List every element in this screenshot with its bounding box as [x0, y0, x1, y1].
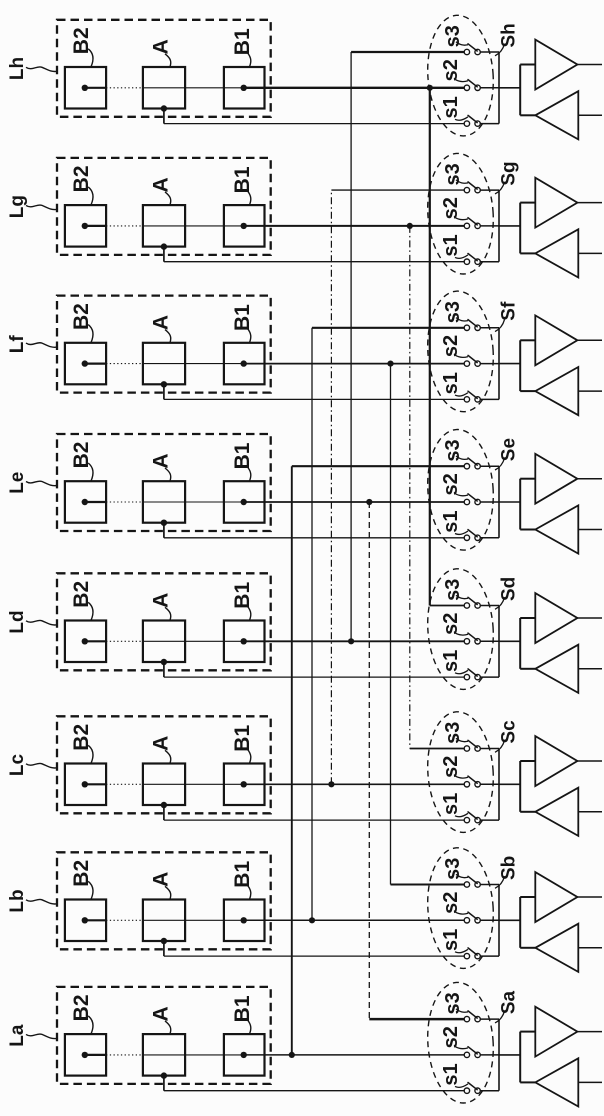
- leader s3 (Sa): [456, 1009, 468, 1012]
- svg-text:B1: B1: [231, 861, 254, 888]
- wire B2 tap to edge (Lb): [85, 919, 106, 921]
- svg-text:Sc: Sc: [499, 720, 520, 744]
- wire B2 tap to edge (Lh): [85, 87, 106, 89]
- switch s2 (Se) blade: [468, 494, 477, 501]
- svg-text:Se: Se: [499, 438, 520, 461]
- switch s3 (Sa) blade: [468, 1011, 477, 1018]
- wire s3 feed horizontal (La): [369, 1018, 467, 1021]
- svg-text:A: A: [150, 177, 173, 192]
- wire switch s1 out stub (Sh): [480, 123, 499, 125]
- svg-text:Lg: Lg: [7, 195, 28, 218]
- wire amp2 output (Sf): [578, 390, 602, 392]
- switch group ellipse Sa: [424, 980, 497, 1105]
- leader Le: [26, 481, 57, 486]
- switch s1 (Sa) blade: [468, 1083, 477, 1090]
- switch s1 (Sg) contact b: [475, 259, 480, 264]
- switch s2 (Sd) contact b: [475, 639, 480, 644]
- wire s3 feed horizontal (Lg): [331, 189, 467, 191]
- svg-text:B1: B1: [231, 28, 254, 55]
- switch s3 (Sc) blade: [468, 740, 477, 747]
- svg-text:s1: s1: [440, 793, 462, 815]
- wire s3 feed horizontal (Lf): [312, 327, 467, 329]
- block B1 (Lc): [224, 764, 265, 806]
- leader s1 (Sa): [455, 1084, 468, 1088]
- leader A (Lf): [165, 330, 171, 343]
- leader B1 (La): [248, 1020, 251, 1034]
- wire B2 tap to edge (La): [85, 1054, 106, 1056]
- switch s3 (Sf) contact b: [475, 325, 480, 330]
- leader A (Lh): [165, 54, 171, 67]
- wire A-B1 (Lb): [143, 919, 244, 921]
- leader s1 (Sf): [455, 393, 468, 397]
- wire B1 to switch s2 (Le): [244, 501, 467, 503]
- wire switch common bus (Sa): [498, 1019, 500, 1091]
- wire A tap drop (Le): [163, 523, 165, 538]
- wire switch s3 out stub (Sa): [480, 1018, 499, 1020]
- svg-text:s2: s2: [440, 473, 462, 495]
- block B2 (Lb): [65, 900, 106, 942]
- switch s1 (Sc) contact a: [464, 817, 469, 822]
- switch s3 (Sd) blade: [468, 597, 477, 604]
- wire to amp 2 (Sb): [520, 947, 535, 949]
- dashed block boundary Lc: [57, 716, 271, 813]
- amp triangle 1 (Sg): [535, 178, 577, 228]
- svg-text:s1: s1: [440, 510, 462, 532]
- switch s2 (Sa) blade: [468, 1047, 477, 1054]
- wire switch s1 out stub (Sg): [480, 261, 499, 263]
- junction node on B1 line (Lb): [309, 917, 315, 923]
- block A (Lb): [143, 900, 185, 942]
- wire switch s2 out stub (Se): [480, 501, 499, 503]
- leader Ld: [26, 620, 57, 625]
- leader s1 (Sc): [455, 813, 468, 817]
- switch s3 (Sf) blade: [468, 320, 477, 327]
- wire switch s1 out stub (Sd): [480, 676, 499, 678]
- switch s1 (Sc) blade: [468, 812, 477, 819]
- block B2 (Lh): [65, 67, 106, 109]
- leader s1 (Sg): [455, 255, 468, 259]
- switch s2 (Sa) contact a: [464, 1052, 469, 1057]
- switch s3 (Sg) blade: [468, 182, 477, 189]
- leader s1 (Se): [455, 531, 468, 535]
- node B1 tap (Le): [241, 499, 247, 505]
- block B2 (Lg): [65, 205, 106, 247]
- wire common out (Sg): [499, 225, 520, 227]
- leader s2 (Se): [455, 494, 468, 496]
- wire amp input bracket (Sd): [519, 618, 521, 669]
- switch s2 (Sb) contact a: [464, 918, 469, 923]
- svg-text:La: La: [7, 1024, 28, 1047]
- svg-text:s2: s2: [440, 197, 462, 219]
- leader s3 (Sb): [456, 874, 468, 877]
- wire amp input bracket (Sb): [519, 897, 521, 948]
- svg-text:Lb: Lb: [7, 889, 28, 912]
- junction node on B1 line (La): [289, 1052, 295, 1058]
- node B1 tap (Lb): [241, 917, 247, 923]
- switch s2 (Sf) contact b: [475, 361, 480, 366]
- switch group ellipse Se: [424, 427, 497, 552]
- wire to amp 2 (Sg): [520, 252, 535, 254]
- svg-text:s2: s2: [440, 59, 462, 81]
- wire switch s1 out stub (Sc): [480, 819, 499, 821]
- wire A output to switch s1 (Le): [164, 537, 467, 539]
- amp triangle 1 (Sa): [535, 1007, 577, 1057]
- leader B2 (Lf): [88, 325, 93, 343]
- svg-text:s2: s2: [440, 613, 462, 635]
- wire amp input bracket (Sf): [519, 340, 521, 391]
- block A (Lh): [143, 67, 185, 109]
- leader Sd: [495, 597, 505, 609]
- leader Lg: [26, 205, 57, 210]
- switch group ellipse Sh: [424, 13, 497, 138]
- svg-text:A: A: [150, 453, 173, 468]
- svg-text:s2: s2: [440, 892, 462, 914]
- switch s1 (Se) contact a: [464, 535, 469, 540]
- block B1 (Le): [224, 481, 265, 523]
- amp triangle 1 (Sc): [535, 736, 577, 786]
- leader A (Le): [165, 468, 171, 481]
- wire s3 feed horizontal (Lh): [351, 51, 467, 53]
- wire A tap drop (Lg): [163, 247, 165, 262]
- wire to amp 2 (Sa): [520, 1081, 535, 1083]
- wire A output to switch s1 (Lg): [164, 261, 467, 263]
- node B1 tap (Lf): [241, 360, 247, 366]
- svg-text:Sa: Sa: [499, 990, 520, 1014]
- switch s3 (Sa) contact b: [475, 1016, 480, 1021]
- wire amp2 output (Sg): [578, 252, 602, 254]
- switch s2 (Sc) contact b: [475, 782, 480, 787]
- wire switch s3 out stub (Sd): [480, 605, 499, 607]
- wire amp2 output (Sd): [578, 668, 602, 670]
- wire common out (Sh): [499, 87, 520, 89]
- dashed block boundary La: [57, 987, 271, 1084]
- switch s2 (Sh) contact b: [475, 85, 480, 90]
- wire vertical bus B1(Lh) to s3(Sd): [429, 88, 431, 606]
- wire dotted B2-A (Le): [106, 501, 143, 503]
- leader s3 (Sc): [456, 738, 468, 741]
- amp triangle 2 (Sc): [535, 788, 578, 836]
- wire switch common bus (Sd): [498, 606, 500, 678]
- block A (Ld): [143, 621, 185, 663]
- wire amp1 output (Sf): [577, 339, 602, 341]
- wire vertical bus B1(Lb) to s3(Sf): [311, 328, 313, 921]
- svg-text:s1: s1: [440, 929, 462, 951]
- switch s3 (Sd) contact a: [464, 603, 469, 608]
- block B2 (La): [65, 1034, 106, 1076]
- switch s3 (Sb) contact a: [464, 882, 469, 887]
- switch s3 (Se) contact b: [475, 464, 480, 469]
- svg-text:s1: s1: [440, 1063, 462, 1085]
- switch s2 (Sf) blade: [468, 355, 477, 362]
- leader s3 (Sh): [456, 42, 468, 45]
- leader s3 (Se): [456, 456, 468, 459]
- amp triangle 1 (Sf): [535, 315, 577, 365]
- wire vertical bus B1(Ld) to s3(Sh): [350, 52, 352, 641]
- node A bottom tap (Lc): [161, 802, 167, 808]
- switch s1 (Sa) contact a: [464, 1088, 469, 1093]
- wire switch s3 out stub (Sf): [480, 327, 499, 329]
- wire amp input bracket (Sc): [519, 761, 521, 812]
- wire switch s2 out stub (Sc): [480, 783, 499, 785]
- wire switch s3 out stub (Se): [480, 465, 499, 467]
- leader B1 (Lh): [248, 53, 251, 67]
- leader Sf: [495, 320, 505, 332]
- wire to amp 1 (Sh): [520, 64, 535, 66]
- wire A output to switch s1 (Lh): [164, 123, 467, 125]
- wire amp1 output (Sg): [577, 202, 602, 204]
- leader s1 (Sb): [455, 949, 468, 953]
- node A bottom tap (Ld): [161, 659, 167, 665]
- leader B1 (Lc): [248, 749, 251, 763]
- leader s3 (Sf): [456, 318, 468, 321]
- wire amp1 output (Sa): [577, 1031, 602, 1033]
- block A (La): [143, 1034, 185, 1076]
- switch s2 (Se) contact a: [464, 499, 469, 504]
- svg-text:s2: s2: [440, 1026, 462, 1048]
- amp triangle 2 (Sh): [535, 91, 578, 139]
- wire amp2 output (Se): [578, 529, 602, 531]
- wire A tap drop (La): [163, 1076, 165, 1091]
- block B1 (Ld): [224, 621, 265, 663]
- switch s1 (Sc) contact b: [475, 817, 480, 822]
- node B1 tap (Ld): [241, 638, 247, 644]
- svg-text:Lh: Lh: [7, 57, 28, 80]
- svg-text:A: A: [150, 1006, 173, 1021]
- wire A output to switch s1 (Ld): [164, 676, 467, 678]
- wire switch s3 out stub (Sh): [480, 51, 499, 53]
- dashed block boundary Lf: [57, 296, 271, 393]
- leader B2 (Le): [88, 463, 93, 481]
- wire A-B1 (Ld): [143, 640, 244, 642]
- wire common out (Sc): [499, 783, 520, 785]
- leader B2 (Ld): [88, 602, 93, 620]
- wire vertical bus B1(Lf) to s3(Sb): [390, 364, 392, 885]
- svg-text:Sf: Sf: [499, 301, 520, 321]
- wire switch common bus (Sg): [498, 190, 500, 262]
- wire A tap drop (Ld): [163, 662, 165, 677]
- switch s1 (Sh) contact b: [475, 121, 480, 126]
- wire switch s2 out stub (Sa): [480, 1054, 499, 1056]
- wire A output to switch s1 (La): [164, 1090, 467, 1092]
- node B1 tap (La): [241, 1052, 247, 1058]
- wire dotted B2-A (Lh): [106, 87, 143, 89]
- svg-text:Lc: Lc: [7, 753, 28, 776]
- switch s1 (Se) blade: [468, 530, 477, 537]
- switch s2 (Sb) contact b: [475, 918, 480, 923]
- switch s2 (Sa) contact b: [475, 1052, 480, 1057]
- block B1 (Lg): [224, 205, 265, 247]
- node A bottom tap (Le): [161, 520, 167, 526]
- wire switch s3 out stub (Sb): [480, 884, 499, 886]
- block A (Lc): [143, 764, 185, 806]
- switch s3 (Sg) contact b: [475, 187, 480, 192]
- switch s1 (Se) contact b: [475, 535, 480, 540]
- node A bottom tap (La): [161, 1072, 167, 1078]
- switch s2 (Sf) contact a: [464, 361, 469, 366]
- wire A-B1 (Lc): [143, 783, 244, 785]
- switch s1 (Sf) contact a: [464, 397, 469, 402]
- block B1 (Lh): [224, 67, 265, 109]
- svg-text:Sh: Sh: [499, 23, 520, 47]
- switch s1 (Sg) contact a: [464, 259, 469, 264]
- leader Sb: [495, 876, 505, 888]
- wire to amp 1 (Se): [520, 478, 535, 480]
- leader s2 (Sb): [455, 912, 468, 914]
- node B2 tap (Lc): [82, 781, 88, 787]
- wire A tap drop (Lb): [163, 941, 165, 956]
- leader Lh: [26, 67, 57, 72]
- wire dotted B2-A (Lg): [106, 225, 143, 227]
- wire to amp 2 (Sf): [520, 390, 535, 392]
- wire B1 to switch s2 (Lh): [244, 87, 467, 89]
- wire dotted B2-A (Lf): [106, 363, 143, 365]
- switch s3 (Se) blade: [468, 458, 477, 465]
- wire switch common bus (Se): [498, 466, 500, 538]
- switch s2 (Sg) blade: [468, 218, 477, 225]
- svg-text:B1: B1: [231, 582, 254, 609]
- switch s2 (Sg) contact b: [475, 223, 480, 228]
- leader A (Lb): [165, 886, 171, 899]
- wire vertical bus B1(La) to s3(Se): [291, 466, 293, 1055]
- wire common out (Se): [499, 501, 520, 503]
- wire common out (Sb): [499, 919, 520, 921]
- svg-text:s2: s2: [440, 335, 462, 357]
- leader s3 (Sg): [456, 180, 468, 183]
- wire B1 to switch s2 (Lf): [244, 363, 467, 365]
- wire amp2 output (Sh): [578, 114, 602, 116]
- dashed block boundary Le: [57, 434, 271, 531]
- wire to amp 1 (Sa): [520, 1031, 535, 1033]
- wire A-B1 (La): [143, 1054, 244, 1056]
- wire A output to switch s1 (Lf): [164, 398, 467, 400]
- wire vertical bus B1(Le) to s3(Sa): [368, 502, 370, 1019]
- switch s2 (Sc) contact a: [464, 782, 469, 787]
- node B1 tap (Lh): [241, 85, 247, 91]
- leader A (Lg): [165, 192, 171, 205]
- svg-text:s1: s1: [440, 372, 462, 394]
- switch s3 (Sg) contact a: [464, 187, 469, 192]
- leader Lb: [26, 899, 57, 904]
- switch s1 (Sd) blade: [468, 669, 477, 676]
- svg-text:B1: B1: [231, 166, 254, 193]
- switch s2 (Sc) blade: [468, 776, 477, 783]
- switch s1 (Sb) contact b: [475, 953, 480, 958]
- leader s2 (Sa): [455, 1046, 468, 1048]
- dashed block boundary Lb: [57, 852, 271, 949]
- wire dotted B2-A (Ld): [106, 640, 143, 642]
- junction node on B1 line (Ld): [348, 638, 354, 644]
- node B2 tap (Ld): [82, 638, 88, 644]
- wire B1 to switch s2 (Ld): [244, 640, 467, 642]
- wire vertical bus B1(Lc) to s3(Sg): [330, 190, 332, 784]
- wire s3 feed horizontal (Ld): [430, 605, 467, 607]
- leader B2 (Lc): [88, 745, 93, 763]
- wire A-B1 (Lh): [143, 87, 244, 89]
- switch s1 (Sf) contact b: [475, 397, 480, 402]
- node B2 tap (Lg): [82, 223, 88, 229]
- switch group ellipse Sg: [424, 151, 497, 276]
- switch s3 (Se) contact a: [464, 464, 469, 469]
- node A bottom tap (Lf): [161, 381, 167, 387]
- switch s2 (Sh) blade: [468, 80, 477, 87]
- wire amp2 output (Sa): [578, 1081, 602, 1083]
- switch s2 (Se) contact b: [475, 499, 480, 504]
- wire switch s1 out stub (Se): [480, 537, 499, 539]
- amp triangle 2 (Sa): [535, 1058, 578, 1106]
- node A bottom tap (Lh): [161, 105, 167, 111]
- wire switch s2 out stub (Sb): [480, 919, 499, 921]
- wire A output to switch s1 (Lc): [164, 819, 467, 821]
- switch s3 (Sh) contact b: [475, 49, 480, 54]
- leader B1 (Lf): [248, 329, 251, 343]
- leader Sg: [495, 182, 505, 194]
- svg-text:Ld: Ld: [7, 610, 28, 633]
- wire B2 tap to edge (Lc): [85, 783, 106, 785]
- switch s1 (Sb) blade: [468, 948, 477, 955]
- wire amp2 output (Sb): [578, 947, 602, 949]
- leader s3 (Sd): [456, 595, 468, 598]
- switch s2 (Sd) contact a: [464, 639, 469, 644]
- block B1 (La): [224, 1034, 265, 1076]
- junction node on B1 line (Le): [366, 499, 372, 505]
- wire B2 tap to edge (Le): [85, 501, 106, 503]
- node B2 tap (Lf): [82, 360, 88, 366]
- junction node on B1 line (Lg): [407, 223, 413, 229]
- svg-text:Sg: Sg: [499, 161, 520, 185]
- amp triangle 2 (Se): [535, 505, 578, 553]
- wire vertical bus B1(Lg) to s3(Sc): [409, 226, 411, 749]
- dashed block boundary Lg: [57, 158, 271, 255]
- switch s1 (Sh) contact a: [464, 121, 469, 126]
- wire common out (Sa): [499, 1054, 520, 1056]
- leader A (Lc): [165, 750, 171, 763]
- switch group ellipse Sd: [424, 567, 497, 692]
- amp triangle 1 (Sd): [535, 593, 577, 643]
- junction node on B1 line (Lf): [387, 361, 393, 367]
- wire A tap drop (Lf): [163, 384, 165, 399]
- svg-text:B1: B1: [231, 304, 254, 331]
- wire B1 to switch s2 (Lg): [244, 225, 467, 227]
- wire A tap drop (Lc): [163, 805, 165, 820]
- amp triangle 2 (Sf): [535, 367, 578, 415]
- leader Sh: [495, 44, 505, 56]
- wire switch s2 out stub (Sh): [480, 87, 499, 89]
- svg-text:Sd: Sd: [499, 577, 520, 601]
- wire amp1 output (Se): [577, 478, 602, 480]
- leader B2 (Lb): [88, 881, 93, 899]
- leader B1 (Le): [248, 467, 251, 481]
- wire switch s1 out stub (Sb): [480, 955, 499, 957]
- wire switch common bus (Sb): [498, 885, 500, 957]
- wire A-B1 (Lf): [143, 363, 244, 365]
- wire to amp 2 (Sc): [520, 811, 535, 813]
- svg-text:A: A: [150, 593, 173, 608]
- leader A (La): [165, 1021, 171, 1034]
- leader s2 (Sh): [455, 79, 468, 81]
- wire B1 to switch s2 (Lb): [244, 919, 467, 921]
- node B2 tap (Le): [82, 499, 88, 505]
- switch s3 (Sb) contact b: [475, 882, 480, 887]
- wire A-B1 (Lg): [143, 225, 244, 227]
- leader B2 (Lh): [88, 49, 93, 67]
- wire switch s2 out stub (Sf): [480, 363, 499, 365]
- switch s1 (Sd) contact b: [475, 674, 480, 679]
- leader Lf: [26, 343, 57, 348]
- leader s1 (Sh): [455, 117, 468, 121]
- junction node on B1 line (Lc): [328, 781, 334, 787]
- wire s3 feed horizontal (Le): [292, 465, 467, 467]
- node A bottom tap (Lg): [161, 243, 167, 249]
